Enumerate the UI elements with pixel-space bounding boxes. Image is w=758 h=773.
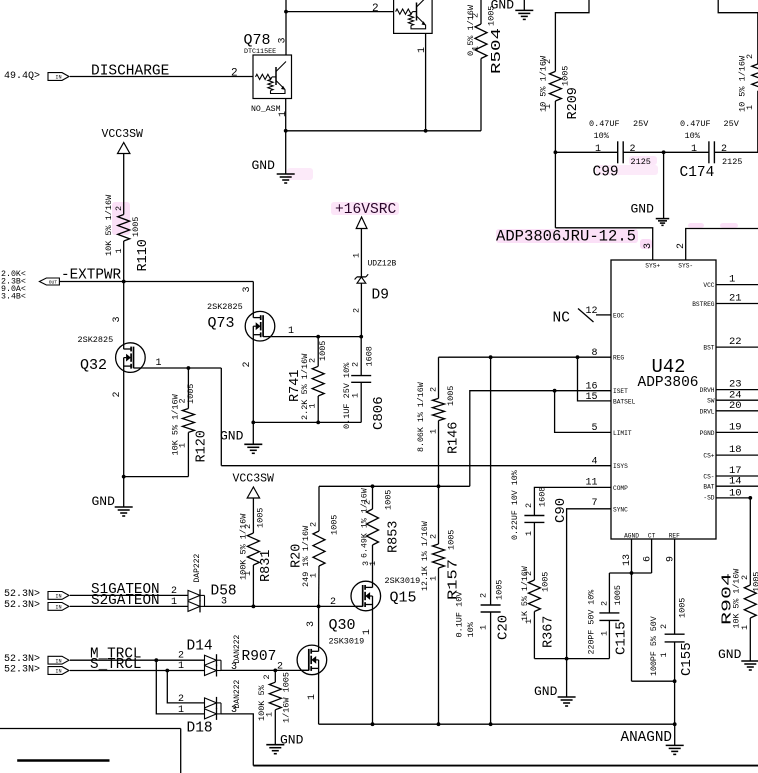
svg-text:52.3N>: 52.3N> (4, 600, 40, 611)
wire top right corner (718, 0, 758, 13)
svg-text:14: 14 (729, 476, 742, 488)
svg-text:2SK3019: 2SK3019 (329, 637, 365, 647)
svg-text:3: 3 (242, 286, 253, 292)
svg-text:ADP3806: ADP3806 (638, 375, 699, 391)
svg-text:1: 1 (471, 46, 481, 51)
svg-text:R20: R20 (290, 544, 305, 568)
resistor R157 (438, 486, 440, 544)
svg-text:0.47UF: 0.47UF (589, 119, 620, 129)
svg-text:2: 2 (171, 586, 177, 597)
resistor R146 (438, 357, 440, 398)
svg-text:1: 1 (429, 576, 439, 581)
svg-text:1005: 1005 (384, 490, 394, 510)
svg-text:2: 2 (277, 662, 283, 673)
svg-text:49.4Q>: 49.4Q> (4, 71, 40, 82)
svg-text:1: 1 (178, 443, 188, 448)
capacitor C99 (617, 141, 619, 163)
svg-text:1: 1 (600, 631, 610, 636)
svg-text:ISYS: ISYS (613, 463, 628, 470)
svg-text:2: 2 (112, 391, 123, 397)
svg-text:2: 2 (178, 651, 184, 662)
wire C99 to C174 (623, 151, 709, 153)
svg-text:25V: 25V (633, 119, 649, 129)
highlight +16VSRC (331, 202, 399, 215)
svg-text:1: 1 (309, 573, 319, 578)
junction C20 rail (489, 722, 493, 726)
IC U42 ADP3806 (611, 260, 716, 539)
wire Q30 source (318, 668, 320, 724)
svg-text:1005: 1005 (752, 572, 758, 592)
svg-text:20: 20 (729, 400, 742, 412)
svg-text:1: 1 (740, 625, 750, 630)
svg-text:D9: D9 (372, 288, 389, 304)
svg-text:VCC: VCC (703, 282, 714, 289)
svg-text:SYS-: SYS- (678, 263, 693, 270)
svg-text:COMP: COMP (613, 485, 628, 492)
diode D58 DAP222 dual (188, 590, 200, 600)
wire BATSEL pin 15 (578, 357, 612, 401)
svg-text:D18: D18 (187, 721, 213, 737)
svg-text:NO_ASM: NO_ASM (251, 105, 281, 114)
svg-text:ANAGND: ANAGND (621, 730, 672, 746)
junction gnd rail (565, 657, 569, 661)
svg-text:1005: 1005 (613, 585, 623, 605)
svg-text:DTC115EE: DTC115EE (244, 48, 276, 56)
wire Q78 emitter down (285, 99, 287, 175)
svg-text:1005: 1005 (131, 217, 141, 237)
resistor right edge clipped (757, 13, 758, 64)
svg-text:EOC: EOC (613, 312, 624, 319)
wire ISET net (319, 485, 470, 487)
svg-text:C174: C174 (680, 165, 715, 181)
junction ANAGND corner (673, 722, 677, 726)
svg-text:2: 2 (231, 68, 238, 80)
svg-text:2: 2 (676, 243, 687, 249)
transistor top DTC115 (clipped) (394, 0, 433, 33)
svg-text:1: 1 (729, 274, 735, 286)
svg-text:GND: GND (92, 494, 116, 509)
capacitor C155 (665, 633, 685, 635)
capacitor C115 (599, 612, 619, 614)
svg-text:2: 2 (309, 522, 319, 527)
svg-text:1: 1 (429, 429, 439, 434)
svg-text:9: 9 (666, 556, 677, 562)
svg-text:IN: IN (55, 658, 61, 664)
wire R367 C115 gnd rail (534, 658, 609, 660)
svg-text:2: 2 (429, 387, 439, 392)
svg-text:C155: C155 (679, 642, 695, 676)
svg-text:SYS+: SYS+ (645, 263, 660, 270)
junction M_TRCL branch (154, 658, 158, 662)
wire AGND CT link (609, 572, 651, 574)
capacitor C90 (524, 515, 544, 517)
wire Q73 gate right (272, 336, 361, 338)
sheet box bottom left (0, 728, 181, 730)
highlight SYS+ pin 3 (640, 239, 652, 249)
svg-text:10%: 10% (685, 131, 701, 141)
wire R209 top (555, 0, 589, 71)
pin 24 SW wire (716, 399, 758, 401)
resistor R110 (118, 215, 130, 242)
svg-text:1005: 1005 (495, 580, 505, 600)
svg-text:2: 2 (600, 601, 610, 606)
svg-text:2: 2 (471, 13, 481, 18)
wire S_TRCL (70, 670, 205, 672)
junction LIMIT drop (553, 389, 557, 393)
svg-text:OUT: OUT (49, 280, 58, 286)
svg-text:16: 16 (585, 381, 597, 392)
svg-text:2125: 2125 (722, 157, 742, 167)
svg-text:3: 3 (231, 662, 237, 673)
junction R120 top (187, 366, 191, 370)
svg-text:22: 22 (729, 336, 742, 348)
wire LIMIT pin 5 (555, 391, 611, 433)
svg-text:0.47UF: 0.47UF (680, 119, 711, 129)
svg-text:2125: 2125 (631, 157, 651, 167)
svg-text:1/16W 1005: 1/16W 1005 (282, 672, 292, 723)
svg-text:1: 1 (417, 47, 428, 53)
junction S_TRCL branch (165, 669, 169, 673)
junction Q78 collector (284, 10, 288, 14)
wire CT pin 6 (651, 539, 653, 573)
svg-text:R504: R504 (490, 28, 505, 74)
wire AGND pin 13 (631, 539, 633, 681)
wire SYS- pin 2 (686, 229, 758, 261)
svg-text:BAT: BAT (703, 484, 714, 491)
pin 1 VCC wire (716, 284, 758, 286)
svg-text:GND: GND (534, 684, 558, 699)
svg-text:-SD: -SD (703, 494, 714, 501)
svg-text:7: 7 (591, 498, 597, 509)
svg-text:21: 21 (729, 293, 742, 305)
wire ISYS drop (220, 368, 222, 466)
wire ISET riser to pin 16 (470, 391, 611, 487)
wire AGND C155 link (632, 680, 675, 682)
svg-text:5: 5 (591, 423, 597, 434)
svg-text:REF: REF (669, 533, 680, 540)
svg-text:1: 1 (479, 625, 489, 630)
resistor R831 (252, 498, 254, 533)
wire Q78 collector to top (285, 0, 287, 55)
svg-text:15: 15 (585, 392, 597, 403)
svg-text:3: 3 (306, 621, 317, 627)
svg-text:1: 1 (595, 144, 601, 155)
thick line in sheet box (17, 759, 109, 762)
svg-text:R120: R120 (195, 430, 210, 462)
svg-text:GND: GND (252, 158, 276, 173)
svg-text:R831: R831 (259, 550, 274, 582)
svg-text:CS-: CS- (703, 474, 714, 481)
svg-text:1: 1 (352, 253, 362, 258)
svg-text:1: 1 (171, 597, 177, 608)
junction C155 link (673, 679, 677, 683)
svg-text:+16VSRC: +16VSRC (335, 202, 397, 218)
pin 19 PGND wire (716, 431, 758, 433)
svg-text:1: 1 (543, 104, 553, 109)
svg-text:1: 1 (351, 393, 361, 398)
svg-text:Q30: Q30 (329, 617, 356, 634)
svg-text:220PF 50V 10%: 220PF 50V 10% (588, 590, 597, 655)
junction R741 top (316, 335, 320, 339)
svg-text:UDZ12B: UDZ12B (368, 260, 397, 269)
wire ANAGND rail (319, 723, 675, 725)
svg-text:ADP3806JRU-12.5: ADP3806JRU-12.5 (496, 228, 636, 246)
svg-text:25V: 25V (724, 119, 740, 129)
svg-text:1: 1 (691, 144, 697, 155)
svg-text:GND: GND (631, 202, 655, 217)
wire C115 drop (608, 573, 610, 613)
wire bottom rail Q73 (253, 421, 361, 423)
svg-text:10K 5% 1/16W: 10K 5% 1/16W (104, 194, 114, 256)
wire C174 right (714, 151, 758, 153)
wire M_TRCL (70, 659, 205, 661)
pin 20 DRVL wire (716, 410, 758, 412)
wire COMP pin 11 (534, 487, 611, 515)
svg-text:Q73: Q73 (208, 315, 235, 332)
svg-text:R146: R146 (447, 422, 462, 454)
svg-text:0.22UF 10V 10%: 0.22UF 10V 10% (511, 470, 520, 540)
svg-text:1005: 1005 (256, 508, 266, 528)
svg-text:2: 2 (178, 694, 184, 705)
svg-text:2: 2 (330, 597, 336, 608)
svg-text:52.3N>: 52.3N> (4, 664, 40, 675)
svg-text:100K 5% 1/16W: 100K 5% 1/16W (239, 513, 249, 580)
wire R20 to Q30 drain (318, 606, 320, 651)
svg-text:1005: 1005 (318, 341, 328, 361)
svg-text:2: 2 (372, 3, 379, 15)
diode D9 UDZ12B zener (360, 283, 362, 336)
svg-text:1: 1 (524, 531, 534, 536)
wire Q32 pin1 right (142, 367, 221, 369)
svg-text:Q78: Q78 (244, 32, 271, 49)
svg-text:1005: 1005 (330, 515, 340, 535)
svg-text:0.1UF 10V: 0.1UF 10V (455, 591, 465, 638)
svg-text:S_TRCL: S_TRCL (90, 657, 141, 673)
svg-text:DAP222: DAP222 (193, 553, 202, 582)
junction R907 top (273, 669, 277, 673)
svg-text:SW: SW (707, 398, 715, 405)
pin 14 BAT wire (716, 485, 758, 487)
svg-text:BSTREG: BSTREG (692, 301, 715, 308)
svg-text:2: 2 (243, 524, 253, 529)
svg-text:10%: 10% (466, 621, 476, 637)
pin 17 CS- wire (716, 475, 758, 477)
svg-text:2: 2 (721, 144, 727, 155)
svg-text:C806: C806 (371, 396, 387, 430)
wire VCC3SW to R110 (123, 154, 125, 215)
junction GND drop C99 C174 (662, 150, 666, 154)
svg-text:1: 1 (524, 619, 534, 624)
resistor R904 (749, 498, 751, 585)
junction R20 Q30 node (317, 605, 321, 609)
svg-text:4: 4 (591, 456, 597, 467)
svg-text:2: 2 (524, 503, 534, 508)
svg-text:19: 19 (729, 421, 742, 433)
svg-text:R907: R907 (242, 649, 277, 665)
wire REF pin 9 (674, 539, 676, 634)
wire D18 output to bottom rail (221, 714, 253, 766)
junction Q73 gnd wire (251, 421, 255, 425)
svg-text:1: 1 (178, 661, 184, 672)
wire D58 output to Q15 gate (205, 605, 363, 607)
resistor R741 (317, 337, 319, 367)
svg-text:BATSEL: BATSEL (613, 398, 636, 405)
wire REG pin 8 (439, 356, 612, 358)
svg-text:12: 12 (585, 306, 597, 317)
svg-text:GND: GND (491, 0, 515, 13)
svg-text:1005: 1005 (446, 386, 456, 406)
wire top transistor emitter (425, 33, 427, 130)
junction Q32 gnd node (122, 475, 126, 479)
junction Q78 emitter node (284, 129, 288, 133)
junction R157 rail (437, 722, 441, 726)
svg-text:2: 2 (308, 358, 318, 363)
svg-text:1005: 1005 (561, 66, 571, 86)
svg-text:GND: GND (220, 429, 244, 444)
svg-text:1: 1 (362, 629, 373, 635)
resistor R853 (372, 486, 374, 509)
svg-text:D14: D14 (187, 639, 213, 655)
junction -SD corner (748, 496, 752, 500)
wire GND drop (663, 152, 665, 218)
svg-text:C115: C115 (614, 621, 630, 655)
pin 21 BSTREG wire (716, 303, 758, 305)
junction R110 EXTPWR (122, 280, 126, 284)
svg-text:DISCHARGE: DISCHARGE (91, 64, 169, 80)
svg-text:R853: R853 (387, 521, 402, 553)
junction R831 bottom (252, 605, 256, 609)
svg-text:PGND: PGND (700, 430, 715, 437)
svg-text:1: 1 (114, 248, 124, 253)
svg-text:VCC3SW: VCC3SW (233, 473, 275, 486)
svg-text:1: 1 (745, 105, 755, 110)
wire Q32 drain (123, 282, 125, 350)
svg-text:IN: IN (55, 594, 61, 600)
junction top transistor pin1 (424, 129, 428, 133)
svg-text:CS+: CS+ (703, 453, 714, 460)
svg-text:6: 6 (643, 556, 654, 562)
svg-text:NC: NC (553, 311, 571, 327)
svg-text:CT: CT (648, 533, 656, 540)
wire Q15 source (372, 604, 374, 724)
junction AGND link (630, 571, 634, 575)
wire C99 row (555, 151, 617, 153)
resistor R120 (187, 368, 189, 409)
svg-text:REG: REG (613, 355, 624, 362)
wire R120 return (124, 476, 189, 478)
svg-text:S2GATEON: S2GATEON (91, 593, 160, 609)
svg-text:2: 2 (630, 144, 636, 155)
highlight GND smudge near Q78 (287, 168, 313, 180)
wire Q73 drain (252, 282, 254, 318)
svg-text:3: 3 (643, 243, 654, 249)
svg-text:BST: BST (703, 345, 714, 352)
junction BATSEL riser (576, 355, 580, 359)
svg-text:1: 1 (243, 571, 253, 576)
svg-text:2: 2 (524, 571, 534, 576)
junction R741 bottom (316, 421, 320, 425)
junction Q15 source rail (371, 722, 375, 726)
svg-text:3: 3 (278, 37, 289, 43)
svg-text:DRVL: DRVL (700, 408, 715, 415)
svg-text:18: 18 (729, 444, 742, 456)
wire -EXTPWR (59, 281, 253, 283)
wire SYNC pin 7 (567, 509, 611, 659)
svg-text:IN: IN (55, 669, 61, 675)
svg-text:VCC3SW: VCC3SW (102, 128, 144, 141)
svg-text:2: 2 (363, 500, 373, 505)
resistor R20 (318, 486, 320, 531)
wire Q15 drain (372, 545, 374, 588)
svg-text:10 5% 1/16W: 10 5% 1/16W (738, 55, 748, 112)
svg-text:R209: R209 (566, 87, 581, 119)
resistor R209 (549, 71, 561, 101)
wire emitter node to R504 (286, 130, 481, 132)
wire Q32 source down (123, 366, 125, 477)
junction R853 top (371, 484, 375, 488)
highlight C99 name (596, 165, 658, 175)
svg-text:2: 2 (429, 534, 439, 539)
resistor R907 (274, 670, 276, 682)
svg-text:8: 8 (591, 348, 597, 359)
svg-text:1: 1 (178, 705, 184, 716)
svg-text:3.4B<: 3.4B< (1, 293, 26, 302)
svg-text:2: 2 (740, 575, 750, 580)
wire SYS+ net to U42 pin 3 (555, 228, 652, 260)
svg-text:2: 2 (745, 54, 755, 59)
highlight R110 area (112, 202, 130, 235)
svg-text:R110: R110 (136, 239, 151, 271)
svg-text:C20: C20 (496, 615, 512, 640)
svg-text:10: 10 (729, 487, 742, 499)
pin 18 CS+ wire (716, 454, 758, 456)
svg-text:1: 1 (278, 111, 289, 117)
wire M_TRCL to D18 pin1 (156, 660, 204, 714)
svg-text:8.06K 1% 1/16W: 8.06K 1% 1/16W (416, 382, 426, 452)
junction C20 riser (489, 355, 493, 359)
svg-text:LIMIT: LIMIT (613, 430, 632, 437)
wire Q73 source down (252, 335, 254, 445)
svg-text:AGND: AGND (624, 533, 639, 540)
svg-text:1: 1 (307, 694, 318, 700)
capacitor C20 (481, 604, 501, 606)
wire to top transistor base (286, 11, 394, 13)
svg-text:2SK2825: 2SK2825 (207, 302, 243, 312)
capacitor C174 (708, 141, 710, 163)
junction C806 D9 node (359, 335, 363, 339)
svg-text:2SK3019: 2SK3019 (385, 576, 421, 586)
svg-text:1608: 1608 (365, 346, 375, 366)
resistor R367 (528, 580, 540, 612)
svg-text:2: 2 (543, 59, 553, 64)
transistor Q78 DTC115EE (253, 55, 292, 99)
svg-text:2: 2 (479, 593, 489, 598)
svg-text:1: 1 (288, 326, 294, 337)
junction R146 R157 node (437, 484, 441, 488)
svg-text:DRVH: DRVH (700, 387, 715, 394)
svg-text:2SK2825: 2SK2825 (78, 335, 114, 345)
svg-text:1: 1 (265, 712, 275, 717)
svg-text:2: 2 (114, 206, 124, 211)
wire C20 net (490, 357, 492, 605)
pin 22 BST wire (716, 346, 758, 348)
highlight SYS- wire (688, 223, 704, 228)
wire S_TRCL to D18 pin2 (167, 671, 204, 703)
svg-text:100PF 5% 50V: 100PF 5% 50V (650, 616, 659, 676)
svg-text:Q15: Q15 (390, 590, 417, 607)
svg-text:1: 1 (156, 358, 162, 369)
svg-text:2: 2 (659, 624, 669, 629)
